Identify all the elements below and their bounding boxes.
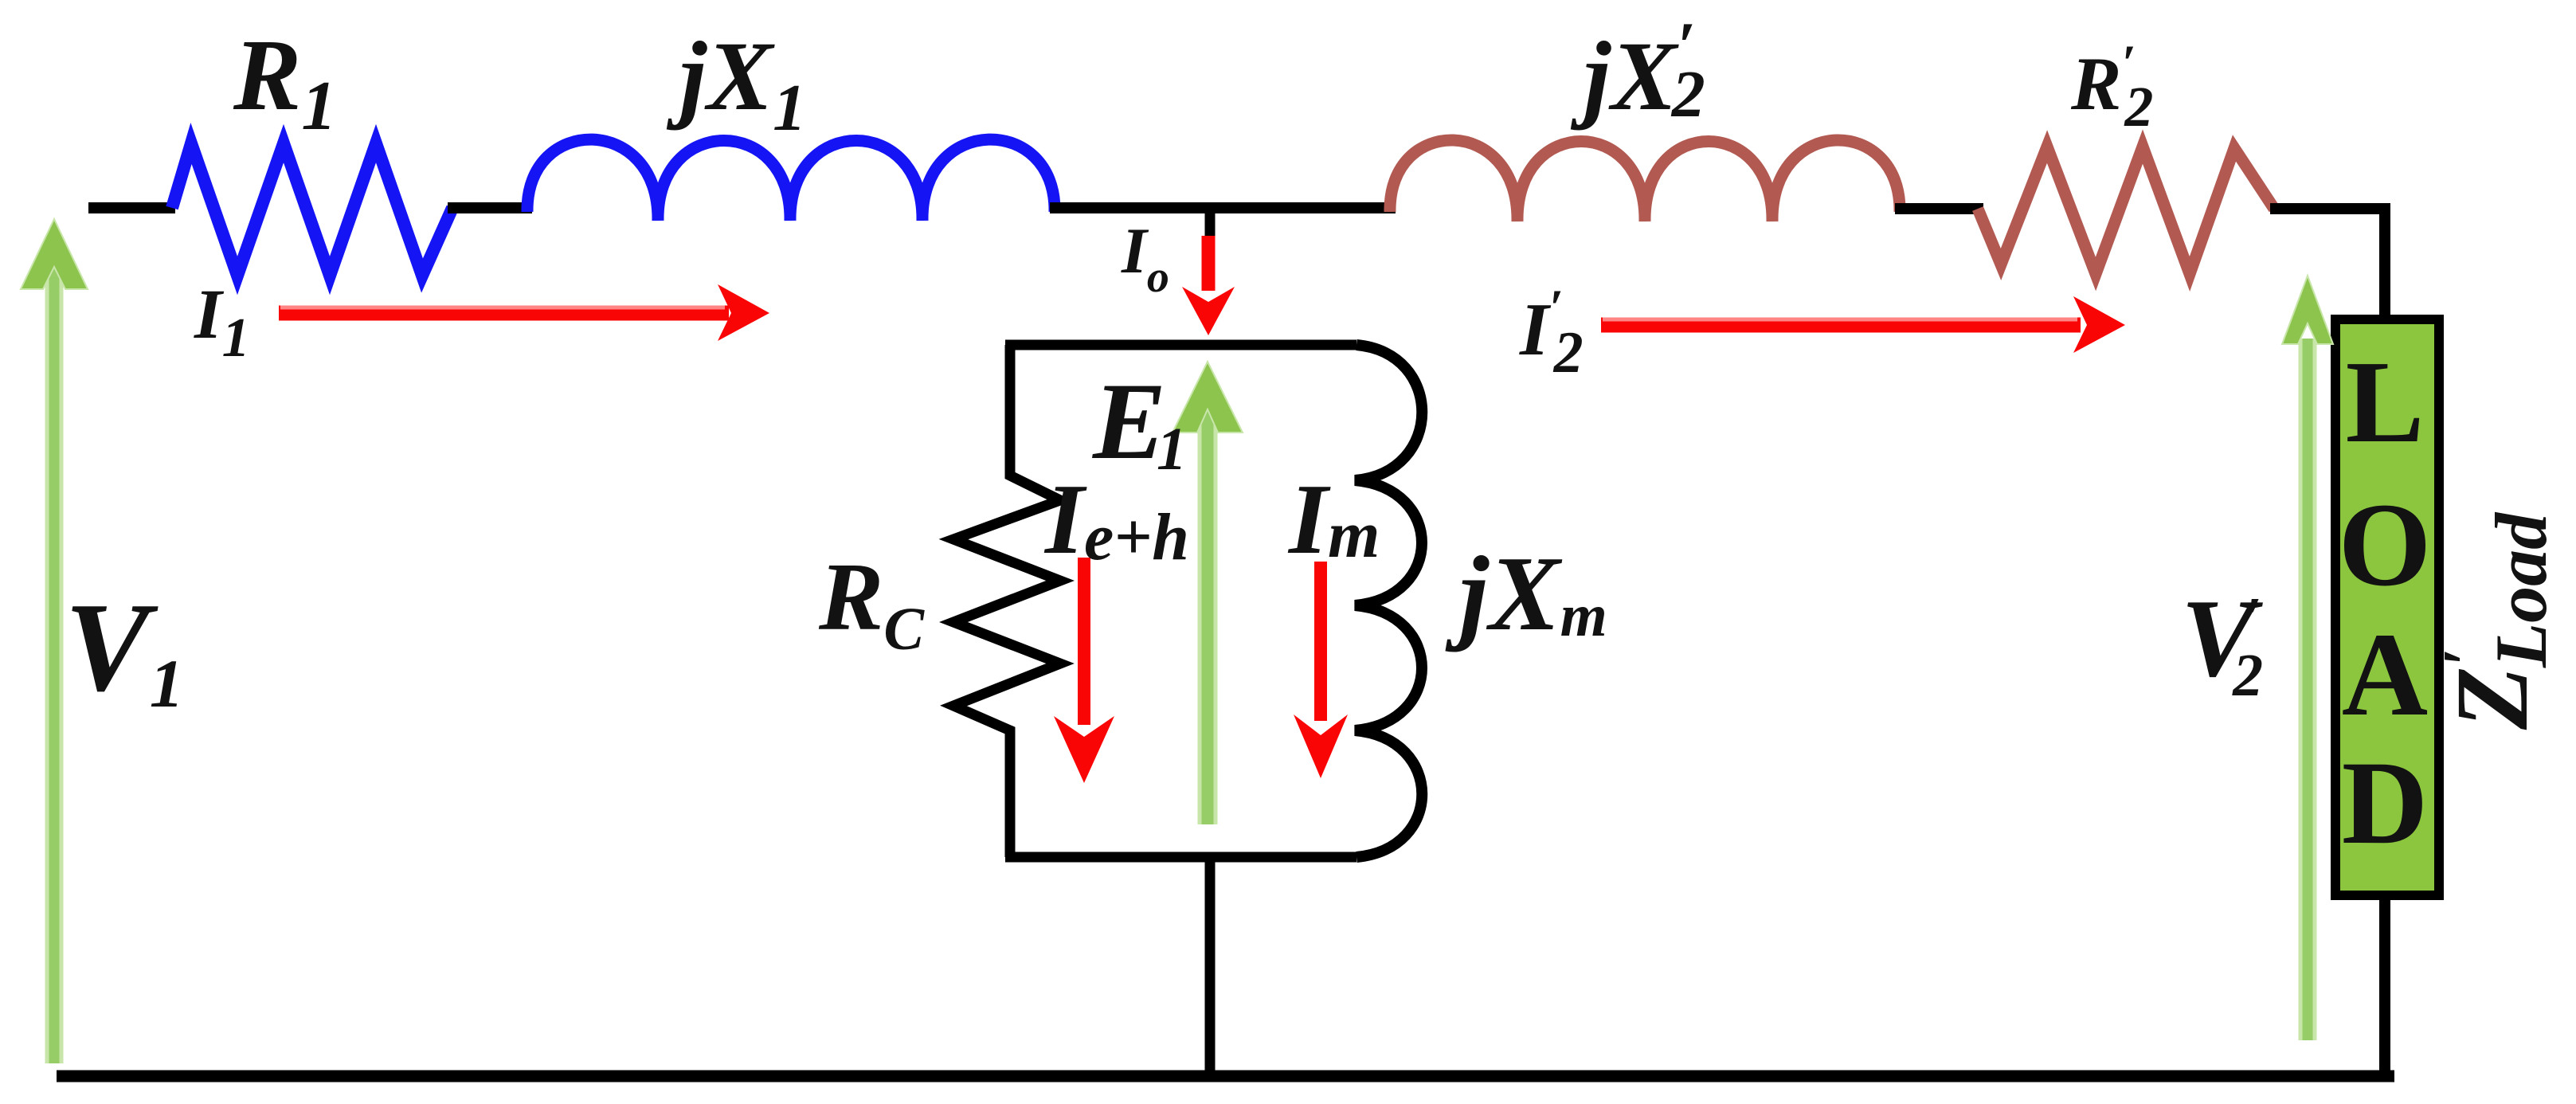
shunt box bottom (1005, 852, 1357, 863)
arrow Ie+h (1054, 558, 1114, 783)
svg-text:D: D (2342, 737, 2428, 869)
svg-text:E1: E1 (1091, 360, 1187, 483)
svg-text:I′2: I′2 (1519, 279, 1584, 386)
inductor jX'2 (1390, 140, 1900, 221)
svg-text:R′2: R′2 (2070, 34, 2153, 139)
svg-text:A: A (2342, 609, 2428, 741)
svg-text:jX′2: jX′2 (1570, 9, 1705, 131)
svg-text:V1: V1 (65, 576, 184, 722)
wire bottom (57, 1071, 2394, 1082)
LOAD box (2335, 319, 2439, 895)
svg-text:R1: R1 (233, 18, 336, 145)
resistor R1 (172, 143, 452, 276)
wire top-left segment (88, 202, 175, 213)
resistor R'2 (1978, 147, 2274, 274)
svg-text:Io: Io (1121, 214, 1169, 302)
arrow V1 (21, 219, 88, 1063)
arrow I1 (279, 284, 769, 341)
svg-text:V′2: V′2 (2181, 577, 2263, 709)
svg-text:L: L (2346, 337, 2425, 468)
wire right vertical bottom (2379, 895, 2390, 1076)
arrow I'2 (1601, 296, 2125, 353)
inductor jX1 (527, 139, 1055, 221)
svg-text:jXm: jXm (1445, 534, 1607, 652)
svg-text:I1: I1 (194, 276, 250, 369)
arrow E1 (1173, 362, 1243, 824)
wire R'2 to right corner (2270, 203, 2390, 214)
wire between R1 and jX1 (448, 202, 532, 213)
wire jX'2 to R'2 (1895, 203, 1983, 214)
wire center stem (1205, 857, 1216, 1076)
arrow V'2 (2282, 276, 2333, 1040)
inductor jXm right side of box (1355, 345, 1422, 857)
svg-text:RC: RC (818, 543, 925, 663)
shunt box left side with resistor RC (953, 345, 1060, 857)
wire right vertical top (2379, 206, 2390, 323)
arrow Io (1182, 236, 1235, 335)
arrow Im (1294, 562, 1348, 778)
wire jX1 to node to jX'2 (1050, 202, 1396, 213)
shunt box top (1005, 340, 1357, 350)
svg-text:jX1: jX1 (666, 22, 806, 145)
node stub above Io (1205, 208, 1216, 239)
svg-text:Z′Load: Z′Load (2431, 511, 2562, 730)
svg-text:O: O (2339, 479, 2432, 611)
